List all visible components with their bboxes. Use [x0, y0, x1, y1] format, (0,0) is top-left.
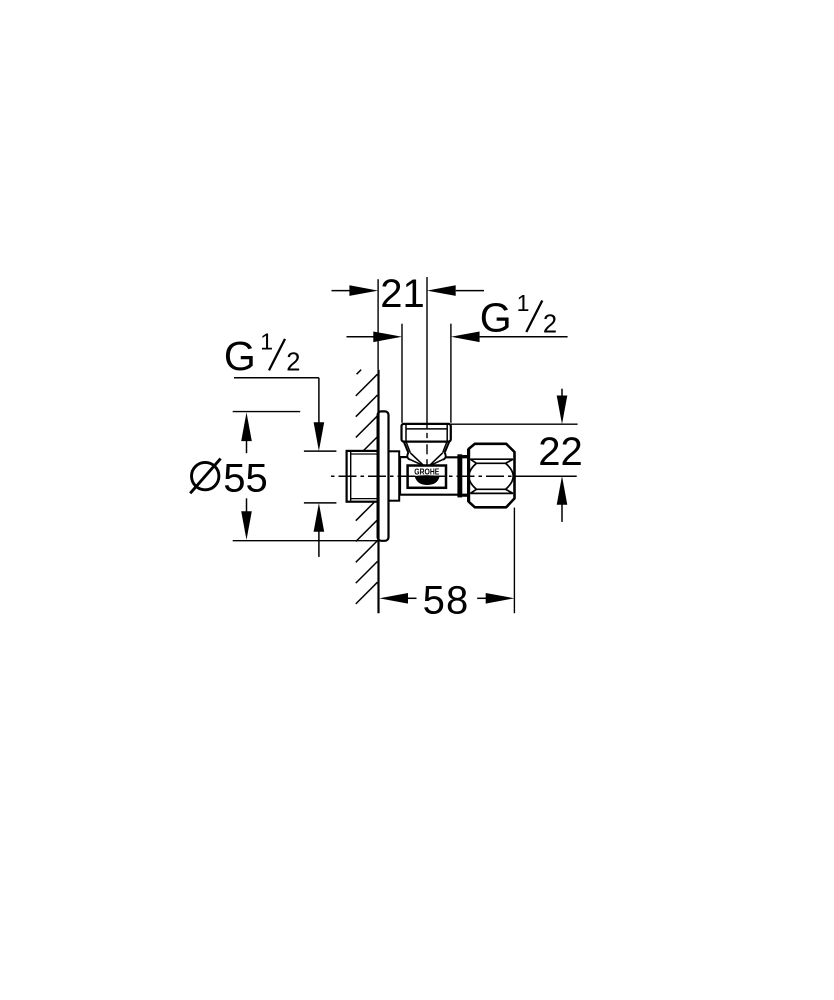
valve body [399, 457, 467, 495]
outlet spigot [462, 456, 467, 496]
G1/2 left leader lines [234, 378, 336, 557]
GROHE swoosh [415, 475, 440, 485]
dimension G1/2 top arrows [347, 332, 568, 343]
compression nut [469, 444, 515, 508]
svg-text:G: G [224, 333, 256, 379]
svg-text:21: 21 [380, 272, 425, 316]
label G1/2 top right [480, 290, 557, 340]
dimension 21 extension line [377, 279, 379, 370]
dimension G1/2 top extension lines [402, 324, 451, 423]
dimension D55 arrows [241, 412, 252, 540]
dimension 58 text [423, 579, 470, 623]
label G1/2 left [224, 329, 300, 379]
dimension 22 arrows [557, 389, 568, 522]
svg-text:1: 1 [260, 329, 273, 355]
horizontal centerline [331, 475, 577, 477]
GROHE wordmark [414, 466, 439, 476]
svg-text:G: G [480, 295, 512, 341]
dimension 58 extension line [513, 508, 515, 614]
dimension 21 arrows [332, 285, 485, 296]
dimension 22 text [538, 430, 583, 474]
dimension 22 extension line [451, 423, 578, 425]
svg-text:58: 58 [423, 579, 470, 623]
flange band [457, 454, 462, 497]
dimension D55 extension lines [233, 412, 380, 541]
wall connector thread G1/2 [347, 451, 379, 502]
funnel fillets and V lines [407, 453, 445, 466]
svg-text:GROHE: GROHE [414, 466, 439, 476]
escutcheon plate [378, 411, 389, 540]
svg-text:55: 55 [223, 457, 267, 501]
inlet union nut (top) [402, 424, 451, 453]
svg-text:1: 1 [517, 290, 530, 316]
dimension 21 text [380, 272, 425, 316]
vertical centerline [426, 277, 428, 465]
collar behind escutcheon [378, 451, 399, 500]
dimension D55 text [190, 457, 268, 501]
wall line [377, 370, 379, 613]
svg-text:22: 22 [538, 430, 583, 474]
svg-text:2: 2 [286, 349, 300, 377]
svg-text:2: 2 [543, 310, 557, 338]
GROHE label box [408, 466, 446, 488]
wall hatching [356, 370, 378, 604]
dimension 58 arrows [379, 593, 514, 604]
